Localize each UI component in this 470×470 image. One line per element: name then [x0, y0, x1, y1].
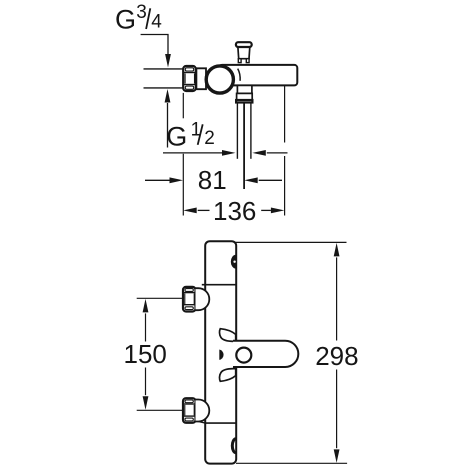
inlet pipe (top view): [144, 69, 184, 88]
svg-text:G: G: [115, 5, 136, 35]
dimension 136: [183, 196, 284, 226]
leader arrow G 3/4: [141, 35, 171, 68]
top union nut (front view): [183, 287, 196, 312]
dimension 298: [234, 242, 359, 463]
G 1/2 leader arrows: [163, 150, 288, 156]
bottom division line: [205, 422, 236, 424]
upper handle wing: [220, 329, 236, 342]
handle tip (black drop): [219, 350, 223, 360]
svg-text:136: 136: [213, 196, 256, 226]
outlet centre line: [243, 103, 245, 190]
top division line: [202, 284, 236, 286]
arrow up to pipe bottom: [165, 89, 171, 148]
diverter button (front view, black): [231, 255, 236, 268]
svg-text:81: 81: [198, 165, 227, 195]
label G 1/2: [166, 120, 214, 152]
spout arm: [233, 341, 298, 367]
dimension 150: [124, 298, 184, 410]
spout opening circle: [236, 348, 251, 363]
svg-text:3: 3: [136, 2, 147, 23]
svg-text:298: 298: [315, 341, 358, 371]
svg-text:G: G: [166, 122, 187, 152]
left extension line: [182, 93, 184, 216]
svg-text:2: 2: [204, 128, 215, 149]
union nut (top view): [183, 66, 196, 91]
top escutcheon dome: [196, 288, 210, 310]
handle skirt arc detail: [238, 69, 240, 81]
bottom union nut (front view): [183, 398, 196, 423]
bottom outlet arc: [232, 439, 236, 453]
label G 3/4: [115, 2, 162, 35]
main column body: [205, 241, 236, 463]
connector cone (top view): [196, 68, 206, 89]
svg-text:4: 4: [151, 12, 162, 33]
lower handle wing: [220, 369, 236, 382]
dimension 81: [145, 165, 282, 195]
right extension line: [284, 86, 286, 216]
bottom escutcheon dome: [196, 400, 210, 422]
outlet block G 1/2: [236, 85, 252, 102]
outlet pipe lines: [237, 103, 251, 159]
thermostat handle circle (top view): [206, 66, 233, 93]
diverter knob (top view): [236, 42, 252, 62]
bottom fitting connector diagonal: [198, 422, 205, 424]
faucet body (top view): [219, 65, 297, 86]
svg-text:150: 150: [124, 339, 167, 369]
